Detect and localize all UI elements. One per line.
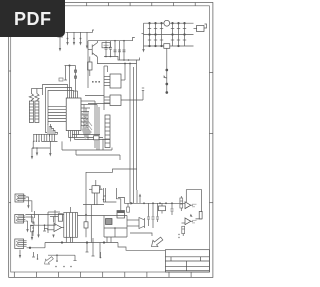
regulator U3 — [104, 64, 125, 89]
left mid wires — [44, 210, 60, 233]
power rail header wire — [66, 30, 95, 32]
zone tick bottom 8 — [168, 272, 170, 277]
zone tick top 6 — [194, 3, 196, 6]
speaker LS1 — [127, 218, 145, 229]
resistor R24 — [182, 226, 185, 236]
feedback loop wire — [186, 190, 202, 219]
connector J6 — [15, 194, 26, 202]
capacitor C22 — [171, 203, 174, 215]
inductor L1 — [164, 20, 170, 26]
analog wire — [118, 198, 185, 205]
sheet outer border — [9, 3, 213, 278]
resistor R15 — [127, 203, 130, 212]
connector pin P3 — [79, 32, 81, 45]
fuse F1 — [164, 44, 170, 49]
bypass capacitor row — [105, 40, 126, 60]
zone tick bottom 7 — [146, 272, 148, 277]
capacitor C5 — [177, 22, 180, 46]
zone tick left 1 — [9, 70, 11, 72]
long bus wire A — [129, 64, 131, 204]
capacitor C3 — [160, 22, 163, 46]
resistor R22 — [199, 212, 202, 219]
long bus wire B — [133, 67, 135, 203]
vertical drops bottom — [86, 238, 101, 258]
resistor network RN1 — [29, 89, 33, 123]
vcc wire top — [88, 38, 135, 41]
wire mcu to u4 — [85, 95, 104, 97]
resistor R3 — [88, 57, 92, 77]
wire to bus — [97, 63, 137, 65]
mcu right routing tangle — [81, 112, 92, 139]
net label box — [59, 78, 63, 81]
filter capacitor C18 — [147, 203, 150, 226]
zone tick right 3 — [209, 202, 213, 204]
transformer bottom drops — [66, 237, 72, 242]
filter box FB2 — [58, 214, 62, 221]
module bus outline — [86, 169, 137, 205]
mcu bottom pins — [69, 131, 111, 142]
zone tick top 5 — [173, 3, 175, 6]
J7 tail wires — [26, 217, 34, 236]
header comb J3 — [33, 134, 57, 142]
transistor Q1 — [88, 41, 98, 64]
zone tick right 2 — [209, 133, 213, 135]
resistor R20 — [159, 203, 166, 213]
connector pin P4 — [86, 32, 88, 49]
zone tick top 3 — [129, 3, 131, 6]
zone tick bottom 2 — [35, 272, 37, 277]
zone tick top 2 — [107, 3, 109, 6]
net arrow bottom left — [43, 252, 102, 266]
misc bottom parts — [32, 252, 72, 267]
net label box U5 — [102, 43, 110, 48]
wire bundle to mesh — [78, 215, 105, 217]
ground stub — [58, 37, 64, 52]
bus routing below mcu — [62, 135, 120, 161]
rn top wire — [31, 88, 42, 90]
pdf badge — [0, 0, 65, 37]
capacitor bank rails — [144, 23, 194, 46]
opto U5 — [106, 219, 113, 225]
gnd bus wire — [104, 56, 137, 61]
bus riser wire — [104, 66, 108, 110]
wire crystal down — [90, 205, 92, 243]
antenna net wire — [163, 48, 168, 93]
J6 tail wires — [26, 197, 32, 212]
regulator U4 — [104, 88, 144, 106]
wire riser right of mcu — [95, 101, 99, 150]
sheet inner border — [11, 6, 210, 272]
connector pin P1 — [66, 32, 68, 45]
filter capacitor C20 — [156, 203, 159, 222]
net label arrow — [130, 233, 164, 250]
zone tick bottom 3 — [58, 272, 60, 277]
net label squares — [92, 81, 100, 83]
wire mid horizontal — [83, 204, 104, 206]
resistor R23 — [180, 196, 183, 211]
zone tick bottom 1 — [13, 272, 15, 277]
net label dots — [178, 234, 179, 238]
ground drops below comb — [31, 141, 52, 159]
connector J7 — [15, 215, 26, 224]
wire above title block — [118, 243, 165, 251]
resistor array RN3 — [105, 115, 110, 148]
zone tick bottom 5 — [102, 272, 104, 277]
title block — [165, 250, 209, 272]
bottom rail wire — [45, 242, 118, 244]
zone tick right 1 — [209, 72, 213, 74]
staircase routing — [46, 123, 58, 137]
wire above mcu — [64, 65, 77, 99]
filter capacitor C19 — [152, 203, 155, 228]
wire j7 to transformer — [25, 214, 63, 216]
crystal X1 — [89, 180, 103, 205]
zone tick bottom 6 — [124, 272, 126, 277]
capacitor C2 — [154, 22, 157, 46]
top wires of bottom section — [100, 186, 121, 206]
connector J8 — [15, 239, 27, 249]
relay K1 — [117, 205, 125, 218]
long bus wire C — [137, 58, 140, 191]
wire riser left — [87, 41, 89, 88]
mcu left pins — [48, 106, 66, 121]
resistor network RN2 — [35, 89, 39, 123]
zone tick bottom 9 — [190, 272, 192, 277]
wire mcu to u4 b — [88, 103, 110, 105]
connector J5 — [194, 24, 207, 32]
mcu right pins — [81, 101, 97, 140]
zone tick top 1 — [86, 3, 88, 6]
J8 tail wires — [19, 243, 45, 259]
zone tick top 4 — [151, 3, 153, 6]
capacitor C6 — [183, 22, 186, 46]
bottom mid wiring — [104, 216, 127, 243]
capacitor C1 — [148, 22, 151, 46]
rail left drop — [142, 23, 145, 52]
wire from bus to opamp — [137, 190, 141, 203]
mcu top pin bus — [43, 85, 78, 130]
transformer T1 — [64, 207, 78, 243]
connector pin P2 — [73, 32, 75, 45]
capacitor C4 — [171, 22, 174, 46]
left section parts — [30, 211, 58, 241]
mcu U1 — [66, 98, 81, 131]
opamp U7B — [182, 218, 197, 225]
opamp U6A — [47, 224, 64, 232]
zone tick left 2 — [9, 133, 11, 135]
feedback resistor R12 — [84, 205, 88, 238]
zone tick bottom 4 — [80, 272, 82, 277]
opamp U7A — [185, 202, 197, 209]
zone tick left 3 — [9, 202, 11, 204]
